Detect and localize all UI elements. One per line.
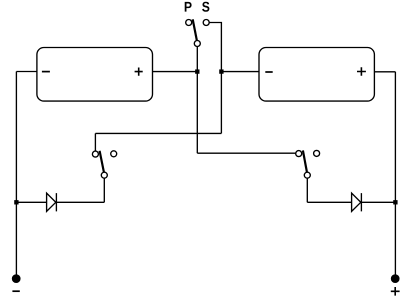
node left rail junction — [15, 201, 18, 204]
label B1 minus — [42, 71, 50, 73]
diode D1 — [47, 193, 57, 211]
wire pole P to switch S3 contact — [197, 152, 295, 154]
switch SW1 pole — [194, 41, 200, 47]
wire left rail vertical — [15, 72, 17, 276]
node S1 junction — [220, 70, 223, 73]
label terminal minus — [12, 290, 19, 292]
label B1 plus — [135, 68, 143, 76]
wire cross horizontal S branch — [95, 132, 221, 134]
wire pole P vertical — [196, 47, 198, 153]
switch SW1 contact P — [186, 20, 192, 26]
node P1 junction — [196, 70, 199, 73]
wire D1 cathode to SW2 — [56, 201, 104, 203]
label P — [185, 2, 192, 12]
node right rail junction — [394, 201, 397, 204]
label B2 minus — [265, 71, 272, 73]
switch SW2 contact B — [111, 151, 117, 157]
terminal post positive — [392, 275, 399, 282]
wire SW2 pole down — [103, 178, 105, 202]
wire S contact to right — [209, 23, 221, 134]
switch SW2 pole — [101, 172, 107, 178]
wire SW3 to D2 anode — [307, 201, 351, 203]
battery B2 — [259, 48, 374, 102]
wire right rail vertical — [394, 72, 396, 275]
switch SW3 contact A — [296, 151, 302, 157]
switch SW3 pole — [304, 172, 310, 178]
wire B1 minus to left rail — [16, 71, 37, 73]
wire left rail to D1 anode — [16, 201, 46, 203]
wire B2 plus to right rail — [374, 71, 395, 73]
switch SW1 arm — [193, 19, 197, 40]
switch SW1 contact S — [203, 20, 209, 26]
terminal post negative — [13, 275, 20, 282]
battery B1 — [37, 48, 153, 102]
diode D2 — [352, 193, 362, 211]
switch SW3 arm — [303, 150, 307, 172]
label terminal plus — [391, 287, 400, 296]
wire B1 plus to node P1 — [153, 71, 198, 73]
switch SW3 contact B — [314, 150, 320, 156]
switch SW2 contact A — [92, 151, 98, 157]
wire down to switch S2 contact — [94, 133, 96, 151]
wire node S1 to B2 minus — [221, 71, 259, 73]
wire SW3 pole down — [306, 178, 308, 202]
label B2 plus — [357, 67, 366, 75]
switch SW2 arm — [100, 151, 104, 172]
label S — [202, 2, 209, 12]
wire D2 cathode to right rail — [361, 201, 395, 203]
